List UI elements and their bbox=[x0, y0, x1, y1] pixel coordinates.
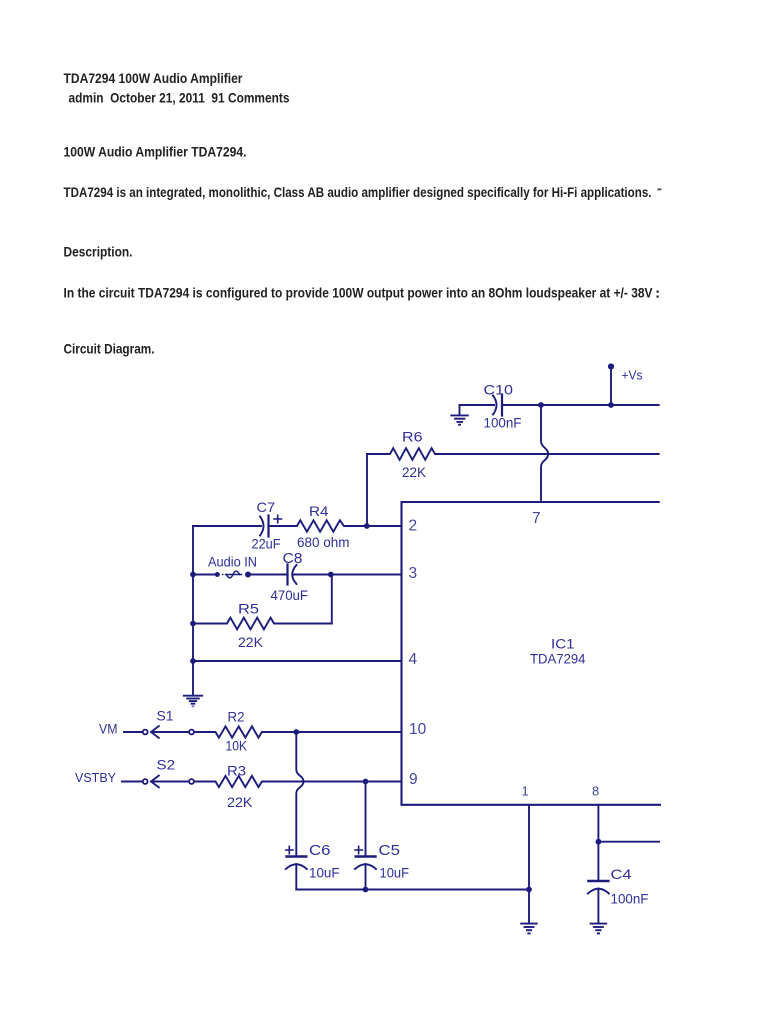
svg-text:470uF: 470uF bbox=[271, 587, 309, 603]
svg-text:R5: R5 bbox=[238, 601, 259, 617]
svg-text:TDA7294 is an integrated, mono: TDA7294 is an integrated, monolithic, Cl… bbox=[64, 185, 652, 200]
svg-text:In the circuit TDA7294 is conf: In the circuit TDA7294 is configured to … bbox=[64, 285, 653, 300]
svg-text:S1: S1 bbox=[157, 708, 174, 724]
svg-text:8: 8 bbox=[592, 784, 599, 799]
svg-text:VSTBY: VSTBY bbox=[75, 770, 116, 785]
svg-text:C6: C6 bbox=[309, 842, 331, 859]
svg-text:3: 3 bbox=[409, 565, 418, 582]
svg-text:4: 4 bbox=[409, 651, 418, 668]
svg-text:Circuit Diagram.: Circuit Diagram. bbox=[64, 342, 155, 357]
svg-text:22uF: 22uF bbox=[252, 536, 281, 552]
svg-text:100nF: 100nF bbox=[611, 891, 649, 907]
svg-text:10uF: 10uF bbox=[380, 865, 410, 881]
svg-text:2: 2 bbox=[409, 518, 418, 535]
svg-text:TDA7294 100W Audio Amplifier: TDA7294 100W Audio Amplifier bbox=[64, 71, 244, 86]
svg-text:10: 10 bbox=[409, 721, 427, 738]
svg-text:100nF: 100nF bbox=[484, 415, 522, 431]
svg-text:680 ohm: 680 ohm bbox=[297, 534, 350, 550]
svg-text:9: 9 bbox=[409, 771, 418, 788]
svg-text:+Vs: +Vs bbox=[622, 369, 643, 383]
svg-text:S2: S2 bbox=[157, 757, 176, 773]
svg-text:IC1: IC1 bbox=[551, 635, 575, 651]
svg-text:admin October 21, 2011 91 Co: admin October 21, 2011 91 Comments bbox=[69, 91, 290, 106]
svg-text:C8: C8 bbox=[283, 550, 303, 567]
svg-text:10uF: 10uF bbox=[309, 865, 340, 881]
svg-text:7: 7 bbox=[532, 510, 541, 527]
svg-text:Audio IN: Audio IN bbox=[208, 553, 257, 569]
svg-text:100W Audio Amplifier TDA7294.: 100W Audio Amplifier TDA7294. bbox=[64, 145, 247, 160]
svg-text:R6: R6 bbox=[402, 429, 423, 445]
svg-text:22K: 22K bbox=[402, 464, 427, 480]
svg-text:R4: R4 bbox=[309, 503, 329, 519]
svg-text:R3: R3 bbox=[227, 763, 246, 779]
svg-text:C5: C5 bbox=[379, 842, 401, 859]
svg-text:10K: 10K bbox=[226, 738, 248, 754]
svg-text:C10: C10 bbox=[484, 382, 514, 398]
svg-text:C7: C7 bbox=[257, 499, 276, 515]
svg-text:R2: R2 bbox=[228, 709, 245, 725]
svg-text:1: 1 bbox=[522, 784, 529, 799]
svg-text:22K: 22K bbox=[238, 634, 264, 650]
svg-text:VM: VM bbox=[99, 722, 118, 737]
svg-text:Description.: Description. bbox=[64, 245, 133, 260]
svg-text:C4: C4 bbox=[611, 866, 632, 882]
svg-text:TDA7294: TDA7294 bbox=[530, 651, 586, 667]
svg-text:22K: 22K bbox=[227, 794, 253, 810]
